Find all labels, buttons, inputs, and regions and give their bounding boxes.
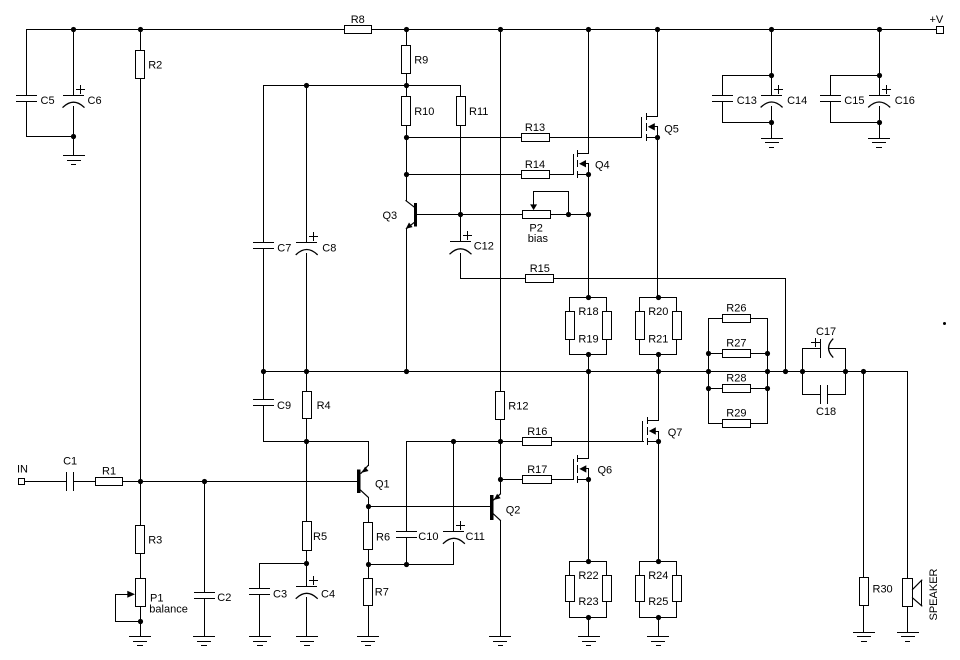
node ladder left rail	[706, 386, 711, 391]
capacitor C2	[195, 592, 232, 604]
wire R7 to ground	[368, 606, 370, 637]
wire R26 row left	[709, 318, 723, 320]
node feedback line left end	[261, 369, 266, 374]
ground (C3)	[250, 637, 271, 646]
node P2 on Q4 source column	[586, 212, 591, 217]
capacitor C6	[63, 86, 102, 108]
svg-text:R6: R6	[376, 531, 390, 543]
wire C15 bottom connector	[831, 102, 880, 123]
svg-text:C3: C3	[273, 589, 287, 601]
wire R14 row to Q4 gate	[550, 174, 574, 176]
node P2 wiper tie	[566, 212, 571, 217]
wire P1 bottom	[140, 607, 142, 622]
svg-text:+V: +V	[930, 14, 944, 26]
wire R13 row to Q5 gate	[550, 137, 642, 139]
wire C14 branch from rail	[771, 30, 773, 76]
node R12/R16	[498, 439, 503, 444]
capacitor C3	[250, 589, 288, 601]
junction on +V rail	[138, 27, 143, 32]
wire Q2 collector to ground	[500, 521, 502, 637]
node on output line	[404, 369, 409, 374]
node R4 top on output line	[304, 369, 309, 374]
svg-text:Q1: Q1	[375, 479, 390, 491]
wire input node line to Q1 base	[123, 481, 358, 483]
svg-text:R1: R1	[102, 466, 116, 478]
wire C3 to ground	[259, 595, 261, 637]
ground (Q2)	[490, 637, 511, 646]
transistor Q3	[383, 201, 461, 229]
svg-text:C11: C11	[466, 531, 485, 543]
svg-text:R26: R26	[726, 303, 746, 315]
capacitor C8	[296, 233, 336, 255]
wire output to speaker	[907, 372, 909, 579]
wire C14 top stub	[771, 76, 773, 96]
resistor R28	[723, 373, 751, 393]
resistor R30	[860, 578, 893, 606]
wire +V rail right segment	[372, 29, 937, 31]
wire to ground	[73, 137, 75, 156]
wire R2 top	[140, 30, 142, 51]
node C10 bottom	[404, 562, 409, 567]
capacitor C17	[803, 326, 846, 357]
wire C9 top	[263, 372, 265, 400]
svg-text:IN: IN	[17, 463, 28, 475]
resistor R8	[345, 14, 372, 34]
wire R2 bottom to input node	[140, 79, 142, 482]
node R6/R7 junction	[366, 562, 371, 567]
node C14 top	[769, 73, 774, 78]
junction on +V rail	[498, 27, 503, 32]
capacitor C16	[869, 86, 915, 108]
wire Q5 drain to rail	[657, 30, 659, 117]
wire C5 branch from rail	[26, 30, 28, 96]
resistor R1	[96, 466, 123, 486]
wire R6 bottom	[368, 550, 370, 565]
wire R18 pair to output line	[588, 355, 590, 372]
transistor Q4 (MOSFET)	[574, 151, 610, 178]
wire Q5 source down	[657, 138, 659, 298]
resistors R18 R19 (parallel pair)	[566, 298, 612, 355]
wire C7 bottom to output line	[263, 249, 265, 372]
resistor R15	[526, 263, 554, 282]
wire C10 bottom	[406, 538, 408, 565]
wire R28 row left	[709, 388, 723, 390]
svg-text:R8: R8	[351, 14, 365, 26]
wire R3 top	[140, 482, 142, 526]
resistors R24 R25 (parallel pair)	[636, 562, 682, 618]
wire +V column to R12	[500, 30, 502, 392]
capacitor C1	[63, 456, 77, 491]
svg-text:R4: R4	[317, 400, 331, 412]
wire +V rail left segment	[27, 29, 345, 31]
resistor R5	[303, 522, 328, 551]
ground (C2)	[194, 637, 215, 646]
junction on +V rail	[404, 27, 409, 32]
resistors R22 R23 (parallel pair)	[566, 562, 612, 618]
wire C11 bottom	[453, 543, 455, 565]
wire C13 bottom connector	[723, 102, 772, 123]
resistor R3	[136, 526, 163, 554]
svg-text:C16: C16	[895, 95, 915, 107]
ground (P1)	[130, 637, 151, 646]
wire R26 ladder left rail	[708, 319, 710, 424]
node R18 bottom	[586, 352, 591, 357]
resistor R16	[523, 426, 552, 445]
capacitor C9	[254, 400, 292, 412]
wire R11 bottom to Q3 base node	[460, 126, 462, 215]
wire C6 top	[73, 30, 75, 96]
wire C16 branch from rail	[879, 30, 881, 76]
wire C12 bottom to R15 row	[461, 254, 526, 279]
resistor R17	[523, 464, 552, 483]
wire C4 top	[306, 564, 308, 587]
svg-text:R30: R30	[873, 584, 893, 596]
wire C16 bottom stub	[879, 107, 881, 123]
svg-text:Q3: Q3	[383, 210, 398, 222]
node R18 top	[586, 295, 591, 300]
node on output line	[800, 369, 805, 374]
wire R28 row right	[751, 388, 768, 390]
svg-text:R12: R12	[508, 401, 528, 413]
wire top connector to C13	[723, 76, 772, 96]
node on output line	[843, 369, 848, 374]
ground (speaker)	[898, 633, 919, 642]
node R9/R10/C7 line	[404, 83, 409, 88]
svg-text:C2: C2	[217, 592, 231, 604]
wire C4 to ground	[306, 598, 308, 637]
svg-text:C8: C8	[322, 243, 336, 255]
capacitor C4	[296, 577, 335, 601]
svg-text:R11: R11	[469, 106, 488, 118]
wire R26 ladder right rail	[767, 319, 769, 424]
wire R7 top	[368, 565, 370, 579]
wire Q6 drain up to output line	[588, 372, 590, 459]
ground (R7)	[358, 637, 379, 646]
wire R9 bottom to node	[406, 74, 408, 97]
wire R4 top	[306, 372, 308, 392]
resistor R10	[402, 97, 435, 126]
resistor R12	[496, 392, 529, 420]
svg-text:R23: R23	[578, 596, 598, 608]
node R20 top	[656, 295, 661, 300]
capacitor C12	[450, 232, 494, 254]
svg-text:C10: C10	[418, 531, 438, 543]
resistors R20 R21 (parallel pair)	[636, 298, 682, 355]
wire C16 to ground	[879, 123, 881, 139]
ground (C6)	[64, 156, 85, 165]
node R24 bottom	[656, 615, 661, 620]
wire R27 row right	[751, 353, 768, 355]
node on output line	[656, 369, 661, 374]
resistor R4	[303, 392, 331, 419]
junction on +V rail	[769, 27, 774, 32]
wire C3 branch connector	[260, 564, 307, 589]
node R2/R3 on input line	[138, 479, 143, 484]
node C8 top	[304, 83, 309, 88]
svg-text:C12: C12	[474, 241, 494, 253]
terminal +V	[930, 14, 944, 34]
svg-text:C18: C18	[816, 406, 836, 418]
resistor R29	[723, 408, 751, 428]
wire R13 row left	[407, 137, 522, 139]
wire R16 row to C10/C11	[407, 441, 501, 443]
resistor R2	[136, 51, 163, 79]
node P1 wiper tie	[138, 619, 143, 624]
wire R26 row right	[751, 318, 768, 320]
wire top connector to C15	[831, 76, 880, 96]
transistor Q1	[357, 442, 389, 507]
wire Q3 emitter to output line	[406, 229, 408, 372]
svg-text:R10: R10	[414, 106, 434, 118]
wire Q1 collector row to Q2 base	[369, 506, 491, 508]
svg-text:R27: R27	[726, 338, 746, 350]
node R22 bottom	[586, 615, 591, 620]
wire C14 bottom stub	[771, 107, 773, 123]
junction on +V rail	[655, 27, 660, 32]
svg-text:R22: R22	[578, 570, 598, 582]
wire R3 to P1	[140, 554, 142, 579]
node R22 top	[586, 559, 591, 564]
wire C5 bottom to C6 node	[27, 102, 74, 137]
speaker LS1	[903, 568, 941, 620]
wire to R14 row	[406, 138, 408, 175]
wire Q3 base node to P2	[461, 214, 523, 216]
wire R24 pair to ground	[658, 618, 660, 637]
wire node line to C7/C8 tops	[264, 85, 461, 87]
svg-text:R18: R18	[578, 306, 598, 318]
node R14 row junction	[404, 172, 409, 177]
wire R6 top	[368, 507, 370, 523]
svg-text:C7: C7	[277, 243, 291, 255]
svg-text:Q7: Q7	[668, 427, 683, 439]
wire R9 top	[406, 30, 408, 46]
resistor R14	[522, 159, 550, 179]
node R20 bottom	[656, 352, 661, 357]
capacitor C15	[821, 95, 865, 107]
resistor R9	[402, 46, 429, 74]
node ladder left rail	[706, 351, 711, 356]
svg-text:C4: C4	[321, 589, 335, 601]
wire IN to C1	[25, 481, 67, 483]
ground (R30)	[854, 633, 875, 642]
capacitor C10	[397, 531, 439, 543]
transistor Q7 (MOSFET)	[643, 418, 683, 445]
wire C12 top	[460, 215, 462, 242]
wire Q7 drain up to output line	[658, 372, 660, 421]
wire C1 to R1	[74, 481, 96, 483]
wire P1 to ground	[140, 622, 142, 637]
wire R16 row to Q7 gate	[552, 441, 644, 443]
resistor R11	[457, 97, 489, 126]
node on output line	[706, 369, 711, 374]
transistor Q5 (MOSFET)	[642, 114, 679, 141]
wire R29 row right	[751, 423, 768, 425]
svg-text:R28: R28	[726, 373, 746, 385]
wire Q7 source down	[658, 442, 660, 562]
svg-text:C9: C9	[277, 400, 291, 412]
node R24 top	[656, 559, 661, 564]
wire C8 bottom to output line	[306, 254, 308, 372]
wire C10 top	[406, 442, 408, 532]
resistor R13	[522, 122, 550, 142]
svg-text:R7: R7	[375, 587, 389, 599]
ground (C16)	[869, 139, 890, 148]
wire Q4 source down	[588, 175, 590, 298]
wire R12 node down	[500, 442, 502, 480]
svg-text:C6: C6	[88, 95, 102, 107]
wire R12 bottom	[500, 420, 502, 442]
wire R5 bottom	[306, 551, 308, 564]
wire R16 row left	[501, 441, 523, 443]
wire speaker to ground	[907, 607, 909, 633]
capacitor C13	[713, 95, 757, 107]
svg-text:Q5: Q5	[664, 124, 679, 136]
wire R22 pair to ground	[588, 618, 590, 637]
junction on +V rail	[71, 27, 76, 32]
wire C9 bottom to Q1 emitter line	[264, 406, 368, 442]
svg-text:balance: balance	[149, 604, 188, 616]
wire R30 top	[863, 372, 865, 578]
node on output line	[783, 369, 788, 374]
wire R29 row left	[709, 423, 723, 425]
svg-text:C13: C13	[737, 95, 757, 107]
potentiometer P1 balance	[116, 579, 188, 622]
node Q1 collector	[366, 504, 371, 509]
wire C16 top stub	[879, 76, 881, 96]
wire R14 row left	[407, 174, 522, 176]
node C14 bottom	[769, 120, 774, 125]
capacitor C18	[803, 386, 846, 418]
node Q3 base / C12 top	[458, 212, 463, 217]
svg-text:Q4: Q4	[595, 160, 610, 172]
capacitor C7	[254, 243, 292, 255]
node C11 top on R16 row	[451, 439, 456, 444]
ground (R24)	[648, 637, 669, 646]
wire R5 top	[306, 442, 308, 522]
svg-text:C5: C5	[41, 95, 55, 107]
svg-text:Q2: Q2	[506, 505, 521, 517]
resistor R7	[364, 579, 389, 606]
wire R11 top stub	[460, 86, 462, 97]
ground (C4)	[297, 637, 318, 646]
wire R30 to ground	[863, 606, 865, 633]
wire R15 to output node column	[554, 279, 786, 372]
node R10/R13 junction	[404, 135, 409, 140]
wire output/feedback line	[264, 371, 908, 373]
wire C17/C18 left rail	[802, 349, 804, 395]
svg-text:R20: R20	[648, 306, 668, 318]
svg-text:R25: R25	[648, 596, 668, 608]
node C16 top	[877, 73, 882, 78]
capacitor C11	[443, 522, 484, 544]
wire C14 to ground	[771, 123, 773, 139]
transistor Q2	[490, 480, 520, 521]
stray mark	[943, 322, 946, 325]
wire C7 top branch	[263, 86, 265, 243]
svg-text:R9: R9	[414, 55, 428, 67]
ground (R22)	[579, 637, 600, 646]
wire to Q3 collector	[406, 175, 408, 201]
node ladder right rail	[765, 351, 770, 356]
wire P2 right terminal	[551, 214, 589, 216]
wire emitter-degeneration bottom row	[369, 564, 454, 566]
wire R27 row left	[709, 353, 723, 355]
junction on +V rail	[586, 27, 591, 32]
wire Q6 source down	[588, 480, 590, 562]
svg-text:R21: R21	[648, 334, 668, 346]
svg-text:R2: R2	[148, 60, 162, 72]
svg-text:C15: C15	[844, 95, 864, 107]
node R17 row	[498, 477, 503, 482]
svg-text:R17: R17	[527, 464, 547, 476]
junction on +V rail	[877, 27, 882, 32]
node ladder right rail	[765, 386, 770, 391]
resistor R6	[364, 523, 391, 550]
svg-text:SPEAKER: SPEAKER	[928, 568, 940, 620]
wire C2 top	[204, 482, 206, 593]
wire R20 pair to output line	[658, 355, 660, 372]
capacitor C14	[761, 86, 807, 108]
capacitor C5	[17, 95, 55, 107]
svg-text:bias: bias	[528, 233, 549, 245]
svg-text:R24: R24	[648, 570, 668, 582]
wire R4 bottom	[306, 419, 308, 442]
node on output line	[765, 369, 770, 374]
wire R10 bottom	[406, 126, 408, 138]
node on output line	[861, 369, 866, 374]
wire C6 bottom	[73, 107, 75, 137]
resistor R27	[723, 338, 751, 358]
svg-text:R16: R16	[527, 426, 547, 438]
wire C8 top	[306, 86, 308, 243]
resistor R26	[723, 303, 751, 323]
potentiometer P2	[523, 192, 569, 246]
svg-text:R19: R19	[578, 334, 598, 346]
node C5/C6 junction	[71, 134, 76, 139]
transistor Q6 (MOSFET)	[574, 456, 613, 483]
node C3/C4 top	[304, 561, 309, 566]
svg-text:R15: R15	[530, 263, 550, 275]
wire C11 top	[453, 442, 455, 532]
svg-text:R14: R14	[525, 159, 545, 171]
terminal IN	[17, 463, 28, 484]
wire C2 to ground	[204, 599, 206, 637]
wire R17 row to Q6 gate	[552, 479, 574, 481]
svg-text:C14: C14	[787, 95, 807, 107]
node C2 on input line	[202, 479, 207, 484]
wire C17/C18 right rail	[845, 349, 847, 395]
svg-text:C1: C1	[63, 456, 77, 468]
node C16 bottom	[877, 120, 882, 125]
node on output line	[586, 369, 591, 374]
ground (C14)	[762, 139, 783, 148]
svg-text:R5: R5	[313, 531, 327, 543]
wire Q4 drain to rail	[588, 30, 590, 154]
svg-text:Q6: Q6	[598, 465, 613, 477]
node R4/R5 junction	[304, 439, 309, 444]
svg-text:R29: R29	[726, 408, 746, 420]
svg-text:C17: C17	[816, 326, 836, 338]
svg-text:R3: R3	[148, 534, 162, 546]
svg-text:R13: R13	[525, 122, 545, 134]
wire R17 row left	[501, 479, 523, 481]
